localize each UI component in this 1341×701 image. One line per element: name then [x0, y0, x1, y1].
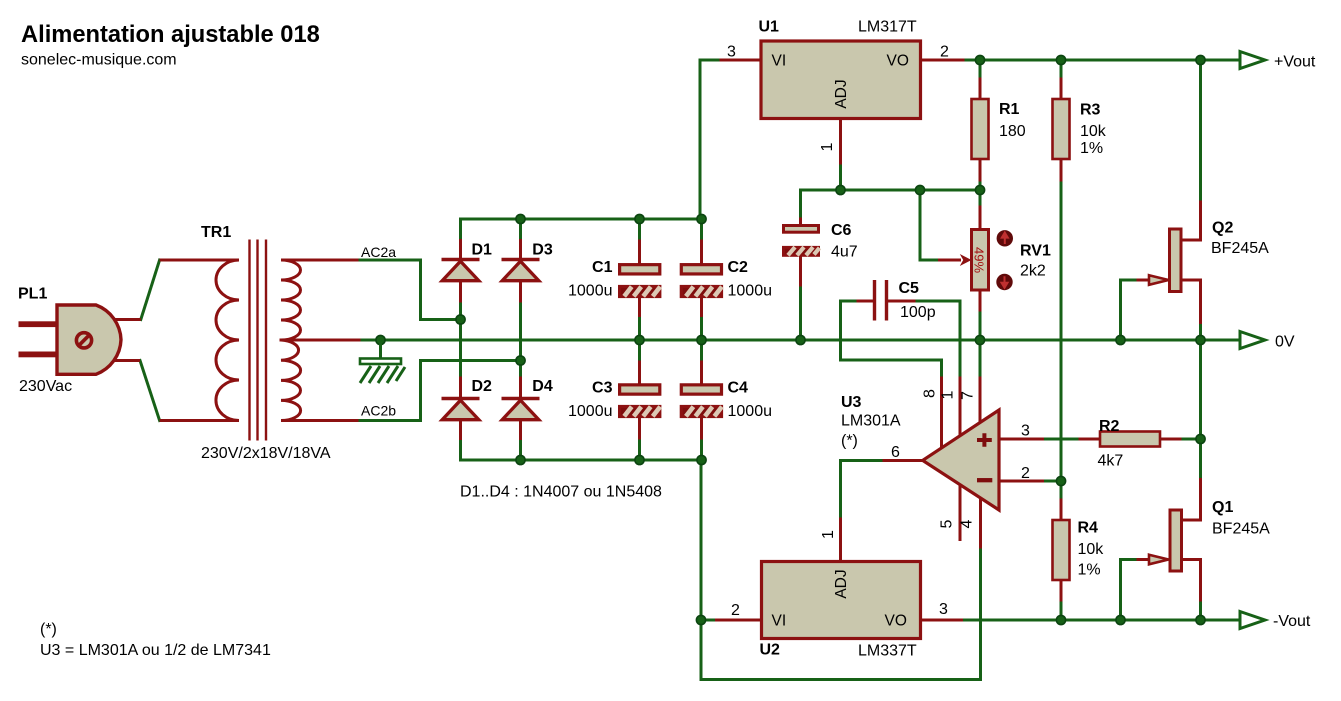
- wire C4 top pin green: [700, 340, 703, 362]
- svg-text:1: 1: [820, 530, 837, 539]
- pin U3 pin8 red: [940, 378, 943, 449]
- pin D3 top red: [519, 241, 522, 259]
- pin D2 top red: [459, 378, 462, 398]
- svg-text:49%: 49%: [972, 247, 987, 273]
- wire bridge top rail: [461, 218, 702, 221]
- wire C4 bottom pin green: [700, 438, 703, 460]
- pin R3 bottom red: [1060, 159, 1063, 180]
- pin U3 pin7 red: [979, 378, 982, 422]
- pin D2 bottom red: [459, 419, 462, 439]
- svg-text:D2: D2: [472, 378, 493, 395]
- wire RV1 wiper from ADJ rail: [920, 190, 940, 260]
- wire R2 right pin green: [1180, 438, 1201, 441]
- capacitor C4: [681, 385, 722, 417]
- svg-text:8: 8: [922, 389, 939, 398]
- wire -Vout rail: [962, 619, 1241, 622]
- wire C6 bottom pin green: [799, 285, 802, 340]
- pin RV1 wiper red with arrowhead: [940, 259, 960, 262]
- pin C2 bottom red: [700, 297, 703, 316]
- output arrow 0V: [1240, 332, 1265, 349]
- svg-text:ADJ: ADJ: [833, 569, 850, 598]
- pin D3 bottom red: [519, 281, 522, 301]
- transformer TR1 primary winding: [160, 260, 239, 421]
- junction RV1 wiper tap on ADJ rail: [915, 185, 924, 194]
- wire Q1 source green: [1199, 600, 1202, 620]
- svg-text:VI: VI: [772, 53, 787, 70]
- svg-text:C3: C3: [592, 380, 613, 397]
- svg-text:2: 2: [940, 44, 949, 61]
- potentiometer RV1 down indicator: [996, 274, 1012, 290]
- svg-text:2: 2: [1021, 465, 1030, 482]
- svg-text:D1..D4 : 1N4007 ou 1N5408: D1..D4 : 1N4007 ou 1N5408: [460, 484, 662, 501]
- svg-text:R2: R2: [1099, 418, 1120, 435]
- transistor Q2 BF245A: [1149, 229, 1181, 292]
- svg-text:4: 4: [959, 519, 976, 528]
- wire AC2a red lead: [300, 259, 357, 262]
- diode D1: [442, 260, 480, 281]
- svg-text:230Vac: 230Vac: [19, 378, 72, 395]
- svg-text:R3: R3: [1080, 102, 1101, 119]
- wire 0V red lead from transformer: [281, 339, 359, 342]
- pin D4 bottom red: [519, 419, 522, 439]
- transformer TR1 secondary winding lower: [281, 340, 357, 421]
- svg-text:VO: VO: [887, 53, 909, 70]
- wire +Vout rail: [963, 59, 1240, 62]
- junction R4 bottom on -Vout rail: [1056, 615, 1065, 624]
- svg-text:D3: D3: [532, 242, 553, 259]
- svg-text:4u7: 4u7: [831, 244, 858, 261]
- pin C1 bottom red: [638, 297, 641, 316]
- svg-text:U3: U3: [841, 394, 862, 411]
- junction C2 top on bridge rail: [697, 214, 706, 223]
- svg-text:LM317T: LM317T: [858, 19, 917, 36]
- wire C3 bottom pin green: [638, 438, 641, 460]
- wire op-amp output to U2 ADJ: [841, 461, 885, 520]
- potentiometer RV1: [972, 230, 1014, 291]
- svg-text:Alimentation ajustable 018: Alimentation ajustable 018: [21, 22, 320, 48]
- svg-text:U1: U1: [759, 19, 780, 36]
- svg-text:U2: U2: [760, 642, 781, 659]
- transformer TR1 core: [250, 240, 267, 441]
- junction Q1 source on -Vout rail: [1196, 615, 1205, 624]
- junction C1 top on bridge rail: [635, 214, 644, 223]
- wire R3 bottom to R4 top column: [1060, 180, 1063, 500]
- pin U3 pin1 red: [959, 378, 962, 435]
- svg-text:4k7: 4k7: [1098, 453, 1124, 470]
- svg-text:0V: 0V: [1275, 334, 1295, 351]
- svg-text:1000u: 1000u: [728, 403, 773, 420]
- svg-text:LM301A: LM301A: [841, 413, 901, 430]
- wire R4 bottom pin green: [1060, 600, 1063, 620]
- svg-text:sonelec-musique.com: sonelec-musique.com: [21, 52, 177, 69]
- pin C2 top red: [700, 241, 703, 263]
- wire bridge bottom rail: [461, 460, 981, 680]
- wire R3 top pin green: [1060, 60, 1063, 79]
- pin U3 pin5 red: [959, 486, 962, 540]
- pin U2 VI red: [717, 619, 761, 622]
- svg-text:(*): (*): [40, 621, 57, 638]
- svg-text:10k: 10k: [1078, 541, 1105, 558]
- svg-text:TR1: TR1: [201, 224, 231, 241]
- output arrow -Vout: [1240, 612, 1265, 629]
- wire RV1 bottom pin green: [979, 310, 982, 340]
- pin U1 ADJ red: [839, 120, 842, 163]
- capacitor C1: [620, 265, 661, 297]
- svg-text:U3 = LM301A ou 1/2 de LM7341: U3 = LM301A ou 1/2 de LM7341: [40, 642, 271, 659]
- ground symbol: [360, 340, 405, 383]
- junction D3 top on bridge rail: [516, 214, 525, 223]
- wire C1 bottom pin green: [638, 316, 641, 341]
- pin RV1 bottom red: [979, 290, 982, 310]
- output arrow +Vout: [1240, 52, 1265, 69]
- pin C4 bottom red: [700, 417, 703, 438]
- pin C3 top red: [638, 362, 641, 384]
- svg-text:C5: C5: [899, 280, 920, 297]
- svg-text:AC2a: AC2a: [361, 244, 396, 260]
- pin Q1 drain red: [1181, 480, 1201, 521]
- svg-text:(*): (*): [841, 433, 858, 450]
- pin Q2 gate red: [1138, 279, 1149, 282]
- svg-text:6: 6: [891, 444, 900, 461]
- junction R2 right on Q1 drain column: [1196, 434, 1205, 443]
- junction D4 bottom on bridge bottom rail: [516, 455, 525, 464]
- svg-text:+Vout: +Vout: [1274, 54, 1316, 71]
- transformer TR1: [160, 240, 357, 441]
- pin U3 pin4 red: [979, 499, 982, 547]
- svg-text:2k2: 2k2: [1020, 263, 1046, 280]
- pin U3 output red: [884, 459, 923, 462]
- pin U1 VI red: [721, 59, 760, 62]
- junction Q2 gate on 0V rail: [1116, 335, 1125, 344]
- svg-text:BF245A: BF245A: [1211, 240, 1269, 257]
- wire RV1 top pin green: [979, 190, 982, 207]
- diode D3: [502, 260, 540, 281]
- svg-text:10k: 10k: [1080, 123, 1107, 140]
- pin C5 right red: [888, 300, 914, 303]
- wire D1 bottom to D2 top column: [459, 301, 462, 378]
- capacitor C3: [620, 385, 661, 417]
- capacitor C2: [681, 265, 722, 297]
- wire U1 input drop (VI to bridge top rail): [700, 60, 721, 219]
- svg-text:VI: VI: [772, 613, 787, 630]
- junction node AC2a at D1/D2: [456, 315, 465, 324]
- junction C4 bottom on bridge bottom rail: [697, 455, 706, 464]
- op-amp U3 LM301A: [923, 410, 999, 510]
- wire C2 top pin green: [700, 219, 703, 241]
- junction Q2 source / Q1 drain on 0V rail: [1196, 335, 1205, 344]
- svg-text:-Vout: -Vout: [1273, 613, 1311, 630]
- wire U2 VI pin green: [701, 619, 717, 622]
- svg-text:100p: 100p: [900, 304, 936, 321]
- resistor R1: [972, 99, 989, 159]
- pin R1 bottom red: [979, 159, 982, 180]
- wire C5 right lead to pin1: [914, 301, 960, 378]
- svg-text:C6: C6: [831, 222, 852, 239]
- wire AC2a net: secondary top lead to D1 column: [357, 260, 461, 320]
- pin Q2 drain red: [1181, 202, 1201, 240]
- pin C6 top red: [799, 219, 802, 224]
- pin Q2 source red: [1181, 280, 1201, 323]
- junction C1/C3 on 0V rail: [635, 335, 644, 344]
- junction Q2 drain on +Vout rail: [1196, 55, 1205, 64]
- junction R1 bottom / RV1 top: [975, 185, 984, 194]
- wire D2 bottom pin green: [459, 439, 462, 461]
- wire AC2a diagonal plug to transformer: [141, 260, 160, 320]
- pin C3 bottom red: [638, 417, 641, 438]
- svg-text:R1: R1: [999, 101, 1020, 118]
- svg-text:3: 3: [1021, 423, 1030, 440]
- pin R2 left red: [1080, 438, 1100, 441]
- svg-text:1: 1: [819, 142, 836, 151]
- potentiometer RV1 up indicator: [997, 230, 1013, 246]
- svg-text:1%: 1%: [1080, 140, 1103, 157]
- pin D1 top red: [459, 241, 462, 259]
- wire op-amp pin7 supply green: [979, 340, 982, 378]
- svg-text:1000u: 1000u: [568, 283, 613, 300]
- wire C2 bottom pin green: [700, 316, 703, 341]
- wire Q2 gate to 0V: [1121, 280, 1139, 340]
- svg-text:1000u: 1000u: [728, 283, 773, 300]
- transformer TR1 secondary winding upper: [281, 260, 357, 340]
- junction R1 top on +Vout rail: [975, 55, 984, 64]
- wire op-amp pin2 green: [1043, 480, 1062, 483]
- pin Q1 source red: [1181, 560, 1201, 601]
- svg-text:Q2: Q2: [1212, 220, 1233, 237]
- pin D4 top red: [519, 378, 522, 398]
- regulator U1 LM317T: [761, 41, 921, 119]
- pin C1 top red: [638, 241, 641, 263]
- svg-text:BF245A: BF245A: [1212, 521, 1270, 538]
- junction node AC2b at D3/D4: [516, 356, 525, 365]
- wire D4 bottom pin green: [519, 439, 522, 461]
- wire op-amp pin3 green: [1043, 438, 1081, 441]
- wire AC2b net: secondary bottom lead to D3/D4 column: [357, 361, 521, 421]
- wire 0V rail: [359, 339, 1240, 342]
- wire Q1 drain column green: [1199, 340, 1202, 480]
- svg-text:RV1: RV1: [1020, 243, 1051, 260]
- resistor R3: [1053, 99, 1070, 159]
- pin R3 top red: [1060, 79, 1063, 99]
- junction U1 ADJ pin on ADJ rail: [836, 185, 845, 194]
- svg-text:R4: R4: [1078, 520, 1099, 537]
- resistor R2: [1100, 432, 1160, 447]
- pin C4 top red: [700, 362, 703, 384]
- svg-text:230V/2x18V/18VA: 230V/2x18V/18VA: [201, 445, 331, 462]
- pin U2 VO red: [922, 619, 962, 622]
- junction C3 bottom on bridge bottom rail: [635, 455, 644, 464]
- diode D4: [502, 399, 540, 420]
- svg-text:C1: C1: [592, 259, 613, 276]
- svg-text:LM337T: LM337T: [858, 643, 917, 660]
- wire U1 ADJ pin green: [839, 163, 842, 190]
- svg-text:1000u: 1000u: [568, 403, 613, 420]
- pin RV1 top red: [979, 207, 982, 229]
- wire C6 top pin green: [799, 190, 802, 219]
- capacitor C6: [784, 226, 820, 256]
- transistor Q1 BF245A: [1149, 510, 1182, 571]
- connector PL1: [19, 305, 141, 374]
- pin R2 right red: [1160, 438, 1180, 441]
- svg-text:7: 7: [960, 391, 977, 400]
- pin C5 left red: [858, 300, 873, 303]
- svg-text:5: 5: [939, 519, 956, 528]
- svg-text:3: 3: [727, 44, 736, 61]
- wire R1 bottom pin green: [979, 180, 982, 190]
- svg-text:1: 1: [940, 390, 957, 399]
- wire R1 top pin green: [979, 60, 982, 79]
- junction RV1 bottom / U3 pin7 on 0V rail: [975, 335, 984, 344]
- pin Q1 gate red: [1138, 558, 1149, 561]
- svg-text:ADJ: ADJ: [833, 79, 850, 108]
- wire Q1 gate to -Vout rail: [1121, 560, 1139, 621]
- svg-text:PL1: PL1: [18, 286, 47, 303]
- pin U1 VO red: [922, 59, 963, 62]
- junction Q1 gate on -Vout rail: [1116, 615, 1125, 624]
- wire C5 left lead to pin8: [841, 301, 942, 378]
- junction U2 VI on negative raw column: [696, 615, 705, 624]
- junction ground tap on 0V rail: [376, 335, 385, 344]
- pin R1 top red: [979, 79, 982, 99]
- svg-text:2: 2: [731, 602, 740, 619]
- pin D1 bottom red: [459, 281, 462, 301]
- regulator U2 LM337T: [762, 562, 921, 639]
- svg-text:D4: D4: [532, 378, 553, 395]
- wire AC2b red lead: [300, 419, 357, 422]
- pin R4 bottom red: [1060, 580, 1063, 600]
- svg-text:C4: C4: [728, 380, 749, 397]
- svg-text:1%: 1%: [1078, 562, 1101, 579]
- pin U2 ADJ red: [839, 519, 842, 560]
- svg-text:D1: D1: [472, 242, 493, 259]
- pin C6 bottom red: [799, 257, 802, 285]
- wire Q2 source green: [1199, 323, 1202, 341]
- junction U3 pin2 / R3-R4 column: [1056, 476, 1065, 485]
- wire AC2b diagonal plug to transformer: [140, 361, 160, 421]
- svg-text:3: 3: [939, 601, 948, 618]
- pin R4 top red: [1060, 500, 1063, 520]
- svg-text:C2: C2: [728, 259, 749, 276]
- wire Q2 drain column green: [1199, 60, 1202, 202]
- svg-text:180: 180: [999, 123, 1026, 140]
- pin U3 in+ red: [999, 438, 1043, 441]
- junction C6 bottom on 0V rail: [796, 335, 805, 344]
- wire D3 top pin green: [519, 219, 522, 241]
- resistor R4: [1053, 520, 1070, 580]
- pin U3 in- red: [999, 480, 1043, 483]
- wire C1 top pin green: [638, 219, 641, 241]
- svg-text:VO: VO: [885, 613, 907, 630]
- wire D1 top pin green: [459, 219, 462, 241]
- svg-text:Q1: Q1: [1212, 499, 1233, 516]
- wire C3 top pin green: [638, 340, 641, 362]
- junction R3 top on +Vout rail: [1056, 55, 1065, 64]
- svg-text:AC2b: AC2b: [361, 403, 396, 419]
- wire ADJ rail: [801, 189, 981, 192]
- diode D2: [442, 399, 480, 420]
- wire D3 bottom to D4 top column: [519, 301, 522, 378]
- junction C2/C4 on 0V rail: [697, 335, 706, 344]
- capacitor C5: [875, 280, 887, 321]
